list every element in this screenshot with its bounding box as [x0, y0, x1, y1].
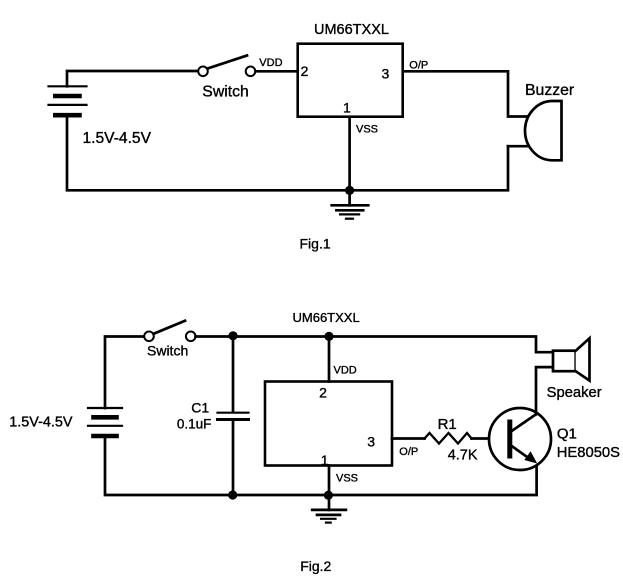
svg-text:3: 3 [367, 434, 375, 450]
svg-text:1: 1 [321, 452, 329, 468]
svg-text:O/P: O/P [409, 60, 428, 72]
svg-text:VSS: VSS [336, 473, 358, 485]
svg-text:0.1uF: 0.1uF [177, 416, 212, 431]
svg-text:R1: R1 [438, 416, 457, 433]
svg-text:Speaker: Speaker [547, 385, 602, 401]
svg-text:2: 2 [319, 385, 327, 401]
svg-text:VSS: VSS [356, 123, 378, 135]
svg-text:1: 1 [343, 100, 351, 116]
svg-text:Switch: Switch [202, 83, 249, 100]
svg-text:Buzzer: Buzzer [525, 82, 574, 99]
svg-text:Switch: Switch [147, 343, 188, 359]
svg-text:1.5V-4.5V: 1.5V-4.5V [9, 414, 73, 430]
svg-text:3: 3 [382, 66, 390, 82]
svg-text:2: 2 [301, 63, 309, 79]
svg-text:Q1: Q1 [557, 426, 577, 443]
svg-text:VDD: VDD [259, 57, 282, 69]
svg-text:4.7K: 4.7K [448, 447, 478, 463]
svg-text:Fig.2: Fig.2 [300, 558, 331, 574]
svg-text:UM66TXXL: UM66TXXL [293, 310, 360, 325]
svg-text:C1: C1 [191, 400, 209, 416]
svg-text:1.5V-4.5V: 1.5V-4.5V [83, 130, 152, 147]
svg-text:UM66TXXL: UM66TXXL [314, 22, 389, 38]
svg-text:Fig.1: Fig.1 [300, 236, 331, 252]
svg-text:HE8050S: HE8050S [557, 445, 620, 461]
svg-text:VDD: VDD [334, 365, 357, 377]
svg-text:O/P: O/P [399, 446, 418, 458]
